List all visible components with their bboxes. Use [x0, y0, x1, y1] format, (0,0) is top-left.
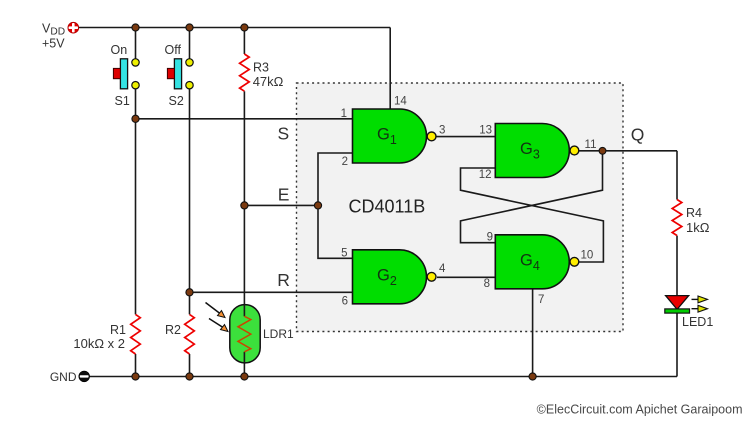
svg-text:+5V: +5V	[42, 36, 65, 50]
IC CD4011B package outline (dotted box)	[297, 83, 624, 332]
junction on VDD rail at R3 column	[241, 24, 248, 31]
wire G4 pin 7 to GND rail	[532, 289, 534, 377]
svg-text:©ElecCircuit.com Apichet Garai: ©ElecCircuit.com Apichet Garaipoom	[537, 402, 743, 416]
svg-text:10: 10	[581, 250, 594, 262]
wire R3 bottom to LDR1 top	[243, 91, 245, 307]
wire R2 bottom to GND rail	[189, 354, 191, 377]
svg-text:6: 6	[342, 295, 348, 307]
svg-text:9: 9	[487, 232, 493, 244]
junction on VDD rail at S1 column	[132, 24, 139, 31]
svg-text:1: 1	[341, 108, 347, 120]
svg-text:14: 14	[394, 95, 407, 107]
junction node Q at G3 output	[599, 147, 606, 154]
svg-text:LED1: LED1	[682, 315, 713, 329]
svg-text:R2: R2	[165, 323, 181, 337]
svg-text:Q: Q	[631, 125, 645, 145]
svg-text:CD4011B: CD4011B	[349, 197, 426, 217]
wire cross-coupling G4 output to G3 pin 12	[461, 168, 604, 262]
wire R1 bottom to GND rail	[135, 354, 137, 377]
svg-text:S1: S1	[115, 94, 130, 108]
junction node E at R3 column	[241, 202, 248, 209]
svg-text:GND: GND	[50, 370, 77, 384]
wire GND bottom rail	[89, 376, 677, 378]
LDR1 light arrow lower	[209, 319, 228, 332]
wire R4 bottom to LED1	[676, 236, 678, 309]
junction node E at gate bracket	[314, 202, 321, 209]
NAND gate U1A G1	[353, 109, 437, 163]
wire R3 column upper	[243, 28, 245, 55]
LED1 light arrow upper	[692, 296, 708, 303]
switch S2 (push button, Off)	[167, 59, 193, 89]
switch S1 (push button, On)	[113, 59, 139, 89]
wire S2 column upper	[189, 28, 191, 60]
wire node E horizontal	[244, 204, 318, 206]
VDD terminal symbol	[68, 22, 79, 33]
junction GND rail at pin 7	[529, 373, 536, 380]
svg-text:S: S	[277, 124, 289, 144]
junction GND rail at R1	[132, 373, 139, 380]
svg-text:2: 2	[342, 156, 348, 168]
svg-text:8: 8	[484, 278, 490, 290]
photoresistor LDR1	[230, 305, 260, 363]
svg-text:LDR1: LDR1	[263, 327, 294, 341]
svg-text:4: 4	[439, 263, 446, 275]
svg-text:E: E	[278, 184, 290, 204]
resistor R4	[672, 200, 682, 236]
wire G1 pin 3 output to G3 pin 13	[436, 136, 495, 138]
svg-text:3: 3	[439, 125, 445, 137]
svg-text:S2: S2	[169, 94, 184, 108]
wire G3 pin 11 output to node Q	[579, 150, 677, 152]
wire node R to G2 pin 6	[190, 291, 353, 293]
svg-text:10kΩ x 2: 10kΩ x 2	[73, 336, 125, 351]
wire node Q down to R4	[676, 151, 678, 200]
wire S1 column lower to R1	[135, 88, 137, 314]
svg-text:R1: R1	[110, 323, 126, 337]
junction GND rail at LDR1	[241, 373, 248, 380]
LED1	[665, 296, 690, 314]
wire node S to G1 pin 1	[136, 118, 353, 120]
svg-text:R4: R4	[686, 206, 702, 220]
NAND gate U1C G3	[495, 124, 579, 178]
resistor R3	[240, 54, 250, 91]
svg-text:R3: R3	[253, 61, 269, 75]
resistor R1	[131, 314, 141, 354]
svg-text:Off: Off	[165, 43, 182, 57]
NAND gate U1D G4	[495, 235, 579, 289]
wire G2 pin 4 output to G4 pin 8	[437, 276, 495, 278]
wire LDR1 bottom to GND rail	[243, 360, 245, 377]
GND terminal symbol	[79, 371, 90, 382]
wire bracket G1 pin 2 to G2 pin 5	[318, 153, 353, 258]
LDR1 light arrow upper	[206, 303, 226, 318]
resistor R2	[185, 314, 195, 354]
wire pin 14 drop from rail to G1	[389, 28, 391, 110]
wire VDD top rail	[79, 27, 390, 29]
LED1 light arrow lower	[692, 305, 708, 312]
junction node R at S2 column	[186, 289, 193, 296]
svg-text:1kΩ: 1kΩ	[686, 220, 710, 235]
wire LED1 cathode to GND rail	[676, 313, 678, 377]
svg-text:On: On	[111, 43, 128, 57]
junction on VDD rail at S2 column	[186, 24, 193, 31]
svg-text:R: R	[277, 270, 290, 290]
NAND gate U1B G2	[353, 250, 437, 304]
wire S1 column upper	[135, 28, 137, 60]
wire cross-coupling G3 output to G4 pin 9	[461, 151, 603, 243]
svg-text:12: 12	[479, 169, 492, 181]
svg-text:5: 5	[341, 248, 347, 260]
svg-text:7: 7	[538, 294, 544, 306]
wire S2 column lower to R2	[189, 88, 191, 314]
junction GND rail at R2	[186, 373, 193, 380]
svg-text:47kΩ: 47kΩ	[253, 74, 284, 89]
svg-text:13: 13	[479, 125, 492, 137]
junction node S at S1 column	[132, 115, 139, 122]
svg-text:11: 11	[585, 139, 597, 151]
